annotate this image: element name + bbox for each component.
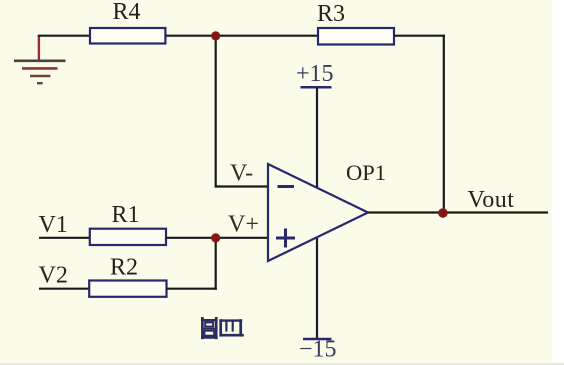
svg-text:−15: −15 bbox=[299, 337, 337, 363]
wire node A down to V- bbox=[215, 35, 217, 187]
wire R1 to node B to op-amp V+ bbox=[166, 237, 269, 239]
wire output bbox=[368, 211, 548, 213]
svg-text:R2: R2 bbox=[110, 255, 138, 281]
wire node B down to R2 wire bbox=[215, 238, 217, 290]
ground bbox=[14, 35, 66, 83]
wire ground to R4 bbox=[38, 35, 91, 37]
resistor R2 bbox=[89, 281, 166, 297]
svg-text:Vout: Vout bbox=[468, 187, 515, 213]
svg-text:R1: R1 bbox=[112, 202, 140, 228]
caption 圖四 (drawn) bbox=[201, 317, 244, 339]
svg-text:OP1: OP1 bbox=[346, 160, 386, 185]
wire V- input bbox=[215, 185, 269, 187]
svg-text:V1: V1 bbox=[39, 212, 68, 238]
wire V1 to R1 bbox=[39, 237, 91, 239]
resistor R1 bbox=[90, 229, 166, 245]
svg-text:+15: +15 bbox=[296, 61, 334, 87]
svg-text:V+: V+ bbox=[228, 211, 259, 237]
power +15 bbox=[296, 61, 334, 188]
output node junction dot bbox=[438, 208, 448, 218]
op-amp OP1 bbox=[268, 164, 368, 261]
svg-text:R4: R4 bbox=[113, 0, 141, 25]
svg-text:V-: V- bbox=[230, 161, 253, 187]
wire right vertical to output node bbox=[443, 35, 445, 213]
svg-text:R3: R3 bbox=[317, 1, 345, 27]
resistor R3 bbox=[318, 28, 394, 45]
wire node A to R3 bbox=[215, 35, 318, 37]
wire R2 to corner up bbox=[167, 288, 217, 290]
node B junction dot bbox=[211, 233, 220, 242]
svg-text:V2: V2 bbox=[39, 262, 68, 288]
power -15 bbox=[299, 238, 337, 363]
resistor R4 bbox=[90, 28, 165, 44]
node A junction dot bbox=[211, 31, 220, 40]
wire V2 to R2 bbox=[39, 288, 90, 290]
wire R4 to node A bbox=[165, 35, 216, 37]
wire R3 to right corner bbox=[394, 35, 445, 37]
